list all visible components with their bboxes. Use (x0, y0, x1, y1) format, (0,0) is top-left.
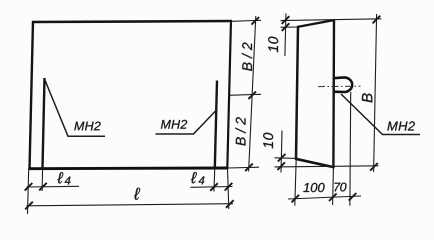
label l4 left script ell (57, 172, 63, 183)
label MH2 right (387, 121, 414, 130)
label L script ell (134, 188, 140, 200)
extension line B/2 top right of plan (232, 20, 261, 21)
tick B/2 bottom (245, 164, 253, 172)
leader line MH2 left (45, 79, 106, 136)
leader line MH2 middle (156, 111, 216, 134)
tick 10 bottom lower (277, 162, 285, 170)
tick B/2 middle (248, 92, 256, 100)
panel outline right edge (plan view) (227, 20, 231, 169)
dimension line l4 left (27, 185, 80, 188)
tick B bottom (370, 163, 378, 171)
dimension line l4 right (191, 186, 233, 189)
extension line below section right edge (332, 168, 335, 205)
tick L right (226, 200, 234, 208)
leader line MH2 right (341, 94, 420, 135)
anchor mark MH2 left bar (43, 78, 45, 168)
label MH2 middle (161, 120, 187, 129)
centre line of loop (dash-dot) (318, 85, 361, 87)
label B (362, 93, 372, 102)
tick L left (25, 202, 33, 210)
label l4 right script ell (191, 172, 197, 183)
extension line below left edge (28, 168, 29, 214)
panel outline top edge (plan view) (32, 21, 232, 22)
dimension line L overall (27, 204, 234, 206)
anchor mark MH2 right bar (215, 81, 217, 169)
tick l4 left at bar (39, 183, 47, 191)
tick 10 bottom upper (278, 154, 286, 162)
dimension line 10 bottom (281, 131, 282, 173)
extension line below left bar (41, 168, 44, 191)
extension line from loop for 70 dim (349, 92, 352, 206)
tick 100 left (292, 195, 300, 203)
tick 10 top lower (282, 23, 290, 31)
extension line bottom short at left corner (275, 157, 297, 160)
tick B/2 top (252, 17, 260, 25)
label B/2 upper (242, 42, 252, 70)
extension line below right edge (228, 168, 229, 209)
tick l4 right at right edge (225, 183, 233, 191)
label MH2 left (74, 122, 100, 131)
panel outline left edge (plan view) (30, 21, 34, 169)
label 100 (303, 183, 324, 192)
section view right edge (332, 20, 335, 169)
extension line B/2 bottom right of plan (228, 166, 259, 169)
section view top edge slanted (297, 20, 335, 27)
lifting loop MH2 on section (333, 77, 352, 92)
tick l4 right at bar (210, 183, 218, 191)
dimension line 10 top (285, 14, 286, 57)
dimension line B/2 vertical (249, 16, 256, 172)
dimension line B vertical (374, 14, 377, 172)
section view bottom edge slanted (295, 159, 335, 168)
label 70 (334, 183, 346, 192)
tick 100 right and 70 left (329, 193, 337, 201)
extension line top long for 10 and B dims (281, 19, 382, 21)
extension line top short at left corner (281, 26, 299, 28)
extension line below section left edge (295, 159, 296, 206)
label l4 left subscript 4 (65, 177, 71, 185)
label 10 bottom (263, 133, 273, 149)
extension line B/2 middle right of plan (229, 94, 262, 95)
label l4 right subscript 4 (198, 176, 204, 184)
dimension line 100 and 70 (288, 196, 361, 199)
extension line below right bar (213, 168, 216, 192)
label 10 top (268, 37, 278, 53)
label B/2 lower (235, 117, 245, 145)
tick l4 left at left edge (25, 183, 33, 191)
extension line bottom long for 10 and B dims (275, 166, 379, 167)
tick 70 right (349, 193, 357, 201)
tick B top (373, 16, 381, 24)
tick 10 top upper (282, 16, 290, 24)
section view left edge (296, 27, 298, 159)
panel outline bottom edge (plan view) (29, 167, 229, 171)
